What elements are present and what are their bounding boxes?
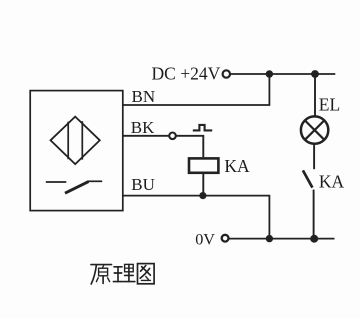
svg-text:BK: BK — [131, 118, 155, 137]
svg-text:BU: BU — [131, 175, 155, 194]
svg-text:EL: EL — [319, 94, 340, 114]
svg-text:KA: KA — [319, 172, 345, 192]
svg-text:DC +24V: DC +24V — [152, 64, 221, 84]
svg-text:KA: KA — [224, 156, 250, 176]
svg-text:BN: BN — [132, 87, 156, 106]
svg-text:0V: 0V — [195, 230, 215, 248]
